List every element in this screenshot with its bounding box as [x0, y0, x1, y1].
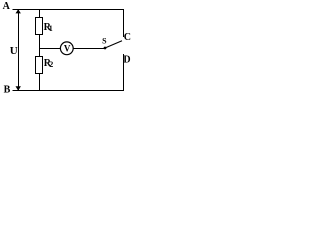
svg-text:D: D — [123, 54, 130, 65]
svg-text:2: 2 — [49, 60, 53, 69]
resistor R1 — [36, 18, 43, 35]
voltage arrow down at B — [16, 86, 21, 91]
wire: junction to voltmeter — [40, 48, 61, 50]
svg-text:S: S — [102, 37, 107, 46]
right wire: top to contact C — [123, 9, 125, 37]
wire: voltmeter to switch pivot — [73, 48, 105, 50]
svg-text:U: U — [10, 45, 18, 57]
svg-text:1: 1 — [49, 24, 53, 33]
wire: R2 to bottom — [39, 74, 41, 92]
resistor R2 — [36, 57, 43, 74]
bottom wire — [13, 90, 125, 92]
wire: top to R1 — [39, 9, 41, 18]
top wire — [13, 9, 125, 11]
svg-text:A: A — [3, 1, 11, 12]
switch S arm — [105, 41, 122, 48]
left wire / U dimension line — [18, 9, 20, 91]
svg-text:B: B — [4, 85, 11, 96]
right wire: contact D to bottom — [123, 54, 125, 91]
svg-text:V: V — [64, 44, 71, 54]
voltage arrow up at A — [16, 9, 21, 13]
svg-text:C: C — [124, 32, 131, 43]
switch S pivot dot — [104, 47, 107, 50]
voltmeter U1 circle — [60, 42, 73, 55]
wire: R1 to R2 — [39, 35, 41, 58]
